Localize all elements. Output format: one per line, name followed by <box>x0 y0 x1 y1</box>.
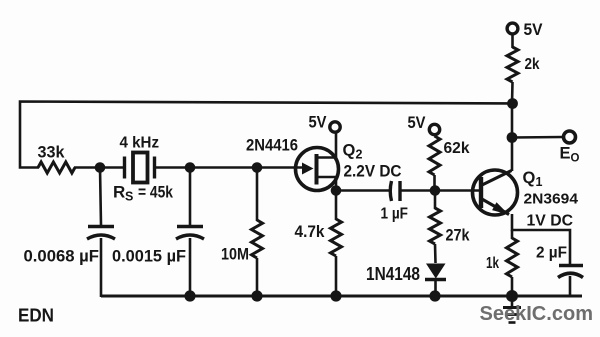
capacitor 2 uF <box>536 245 583 297</box>
wire: collector up to Eo node <box>511 138 514 172</box>
svg-text:Q: Q <box>523 169 536 187</box>
wire: source to 1uF <box>336 189 390 192</box>
svg-text:1V DC: 1V DC <box>527 213 574 230</box>
svg-text:4.7k: 4.7k <box>295 223 326 241</box>
svg-text:= 45k: = 45k <box>138 184 174 202</box>
svg-text:2N3694: 2N3694 <box>524 192 579 208</box>
svg-text:O: O <box>571 153 580 165</box>
resistor 2k <box>507 34 540 105</box>
terminal 5V (top) <box>507 21 542 39</box>
wire: 1uF to Q1 base <box>400 189 481 192</box>
capacitor 1 uF <box>381 181 409 223</box>
wire: 33k to crystal <box>74 166 124 169</box>
svg-text:62k: 62k <box>444 140 470 157</box>
wire: feedback loop top <box>20 102 513 168</box>
svg-text:5V: 5V <box>524 21 543 39</box>
resistor 4.7k <box>295 191 342 297</box>
svg-text:27k: 27k <box>446 227 471 245</box>
svg-text:R: R <box>113 183 125 202</box>
svg-text:S: S <box>125 190 133 204</box>
svg-text:33k: 33k <box>38 144 66 162</box>
svg-text:1k: 1k <box>486 255 499 272</box>
node: rail junction 10M <box>251 290 262 301</box>
resistor 10M <box>221 168 263 297</box>
svg-text:2k: 2k <box>525 56 540 73</box>
svg-text:Q: Q <box>343 142 356 160</box>
resistor 33k <box>38 144 76 174</box>
svg-text:SeekIC.com: SeekIC.com <box>480 302 594 325</box>
svg-text:10M: 10M <box>221 246 249 264</box>
svg-text:EDN: EDN <box>18 305 54 326</box>
terminal 5V (62k) <box>408 114 440 135</box>
node: diode anode rail junction <box>429 290 440 301</box>
svg-text:2 µF: 2 µF <box>536 245 567 262</box>
node: rail junction 4.7k <box>330 290 341 301</box>
diode 1N4148 <box>366 263 446 296</box>
wire: trunk between junctions <box>511 104 514 138</box>
node: rail junction 1k/ground <box>506 290 518 302</box>
node: Q2 source junction <box>331 185 342 196</box>
svg-text:1: 1 <box>536 175 543 189</box>
capacitor 0.0015 uF <box>112 168 204 297</box>
terminal 5V (Q2 drain) <box>309 114 341 133</box>
wire: crystal to JFET gate <box>156 166 306 169</box>
resistor 27k <box>430 191 471 264</box>
resistor 1k <box>486 230 518 296</box>
svg-text:0.0015 µF: 0.0015 µF <box>112 248 186 266</box>
svg-text:2: 2 <box>356 148 363 162</box>
node: junction after 33k <box>95 162 106 173</box>
svg-text:1N4148: 1N4148 <box>366 263 420 284</box>
svg-text:4 kHz: 4 kHz <box>120 135 160 152</box>
svg-text:0.0068 µF: 0.0068 µF <box>24 248 100 266</box>
transistor Q2 JFET 2N4416 <box>246 133 402 191</box>
svg-text:E: E <box>560 145 571 163</box>
wire: emitter node <box>512 214 570 264</box>
node: junction crystal output <box>185 162 196 173</box>
svg-text:5V: 5V <box>309 114 327 132</box>
svg-text:1 µF: 1 µF <box>381 206 409 223</box>
node: rail junction 0.0015 <box>184 290 195 301</box>
svg-text:5V: 5V <box>408 114 426 132</box>
node: 62k/27k/base junction <box>430 185 441 196</box>
capacitor 0.0068 uF <box>24 168 116 298</box>
svg-text:2N4416: 2N4416 <box>246 136 298 155</box>
node: feedback junction <box>507 98 518 109</box>
resistor 62k <box>429 136 470 191</box>
ground symbol <box>503 296 521 323</box>
terminal Eo output <box>560 131 580 165</box>
node: junction 10M tap <box>252 162 263 173</box>
svg-text:2.2V DC: 2.2V DC <box>344 163 402 181</box>
crystal Y1 4 kHz / Rs = 45k <box>113 135 174 204</box>
wire: ground rail <box>101 295 582 298</box>
wire: to output terminal <box>512 136 563 139</box>
node: output junction <box>507 132 518 143</box>
transistor Q1 2N3694 <box>473 169 579 215</box>
